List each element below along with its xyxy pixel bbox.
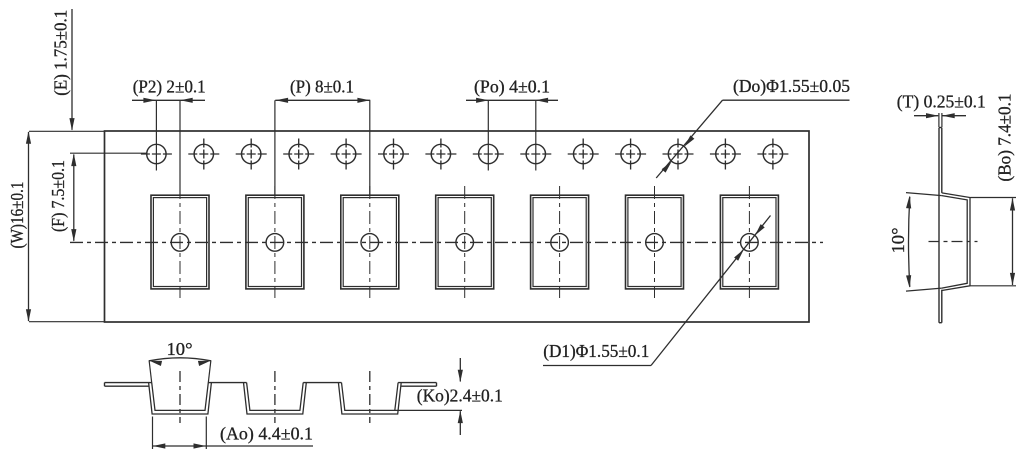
svg-text:(E) 1.75±0.1: (E) 1.75±0.1: [50, 10, 70, 96]
svg-text:(T) 0.25±0.1: (T) 0.25±0.1: [897, 91, 986, 111]
svg-text:(Ao) 4.4±0.1: (Ao) 4.4±0.1: [220, 424, 313, 444]
svg-text:(P) 8±0.1: (P) 8±0.1: [290, 76, 354, 96]
svg-text:(Ko)2.4±0.1: (Ko)2.4±0.1: [417, 386, 503, 406]
svg-text:(D1)Φ1.55±0.1: (D1)Φ1.55±0.1: [543, 341, 649, 361]
svg-text:(Do)Φ1.55±0.05: (Do)Φ1.55±0.05: [733, 76, 850, 96]
svg-text:(F) 7.5±0.1: (F) 7.5±0.1: [48, 160, 68, 232]
svg-text:(P2) 2±0.1: (P2) 2±0.1: [133, 76, 206, 96]
svg-text:10°: 10°: [167, 339, 193, 359]
svg-text:(W)16±0.1: (W)16±0.1: [7, 182, 27, 249]
svg-text:(Bo) 7.4±0.1: (Bo) 7.4±0.1: [995, 94, 1015, 182]
svg-text:10°: 10°: [888, 228, 908, 254]
svg-text:(Po) 4±0.1: (Po) 4±0.1: [474, 76, 550, 96]
